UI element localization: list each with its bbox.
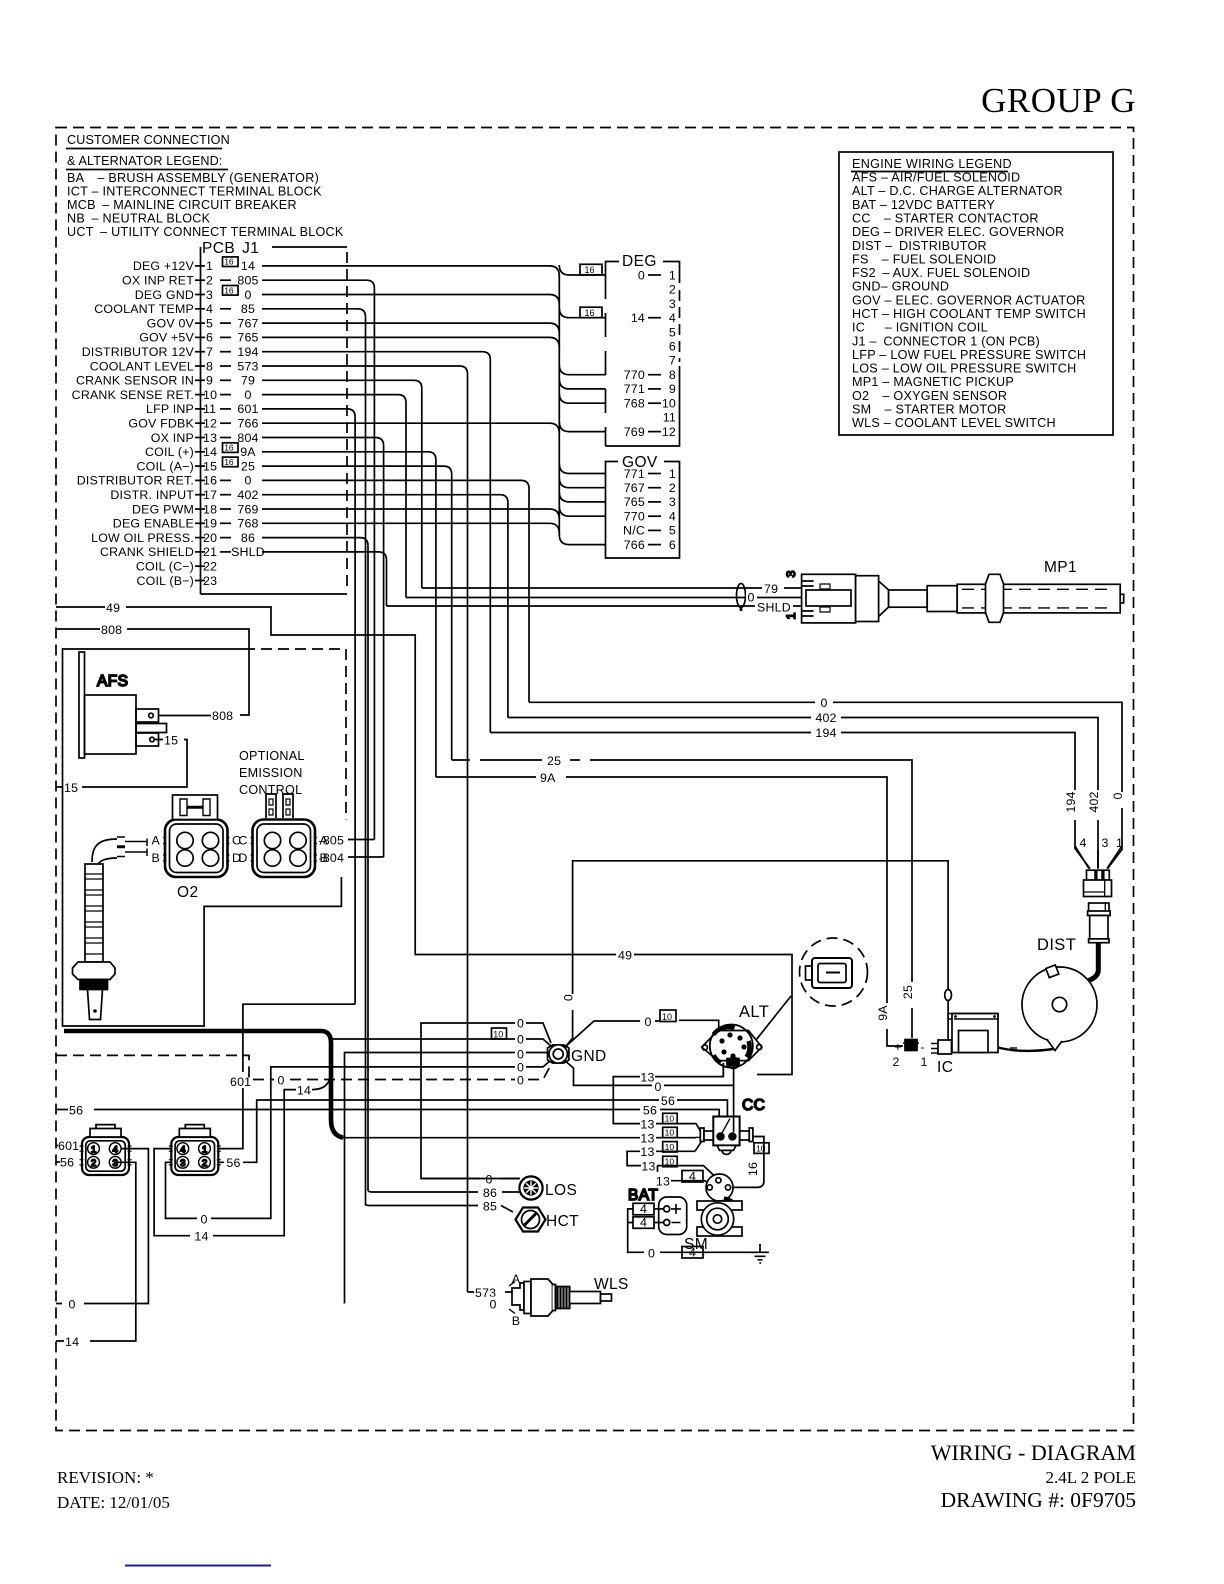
svg-text:402: 402 xyxy=(815,711,836,725)
harness connector 2 xyxy=(169,1125,221,1175)
boxed label 4 xyxy=(633,1202,654,1216)
svg-text:OX INP RET: OX INP RET xyxy=(122,274,194,288)
svg-text:REVISION: *: REVISION: * xyxy=(57,1468,154,1487)
svg-text:4: 4 xyxy=(640,1216,647,1230)
distributor connector lower xyxy=(1088,903,1111,943)
svg-text:ENGINE WIRING LEGEND: ENGINE WIRING LEGEND xyxy=(852,157,1012,171)
wire 85 vertical xyxy=(365,317,367,1206)
svg-text:LOS: LOS xyxy=(545,1182,577,1199)
wire label 0 xyxy=(746,589,757,603)
svg-text:WIRING - DIAGRAM: WIRING - DIAGRAM xyxy=(931,1440,1136,1465)
svg-text:1: 1 xyxy=(920,1055,927,1069)
svg-text:18: 18 xyxy=(203,502,217,516)
svg-text:DEG PWM: DEG PWM xyxy=(132,502,194,516)
wire J1 pin 10 drop xyxy=(262,395,406,403)
svg-text:14: 14 xyxy=(631,311,645,325)
svg-text:22: 22 xyxy=(203,560,217,574)
svg-text:10: 10 xyxy=(665,1114,675,1124)
svg-text:14: 14 xyxy=(194,1230,208,1244)
svg-text:194: 194 xyxy=(815,726,836,740)
svg-text:GROUP G: GROUP G xyxy=(981,81,1136,120)
wire 25 vertical xyxy=(451,474,453,760)
wire J1 pin 9 drop xyxy=(262,380,422,388)
wire 804 stub xyxy=(348,856,384,858)
boxed label 16 DEG pin1 xyxy=(580,264,602,275)
svg-text:ALT: ALT xyxy=(739,1003,769,1021)
svg-text:4: 4 xyxy=(669,510,676,524)
svg-text:13: 13 xyxy=(640,1145,654,1159)
svg-text:4: 4 xyxy=(640,1202,647,1216)
svg-text:DIST: DIST xyxy=(1037,936,1076,954)
svg-text:DIST – DISTRIBUTOR: DIST – DISTRIBUTOR xyxy=(852,239,987,253)
svg-text:0: 0 xyxy=(517,1033,524,1047)
svg-text:UCT – UTILITY CONNECT TERMINAL: UCT – UTILITY CONNECT TERMINAL BLOCK xyxy=(67,225,344,239)
wire 0 conn2 loop to GND xyxy=(166,1060,552,1218)
svg-text:14: 14 xyxy=(297,1084,311,1098)
svg-text:3: 3 xyxy=(113,1158,118,1169)
svg-text:1: 1 xyxy=(784,612,798,619)
rotated wire label 402 xyxy=(1092,790,1105,820)
wire J1 pin 20 drop xyxy=(262,538,368,546)
wire J1 pin 6 to DEG/GOV bus xyxy=(262,337,559,347)
svg-text:808: 808 xyxy=(101,623,122,637)
svg-text:DEG +12V: DEG +12V xyxy=(133,259,195,273)
svg-text:J1 – CONNECTOR 1 (ON PCB): J1 – CONNECTOR 1 (ON PCB) xyxy=(852,334,1040,348)
svg-text:13: 13 xyxy=(203,431,217,445)
svg-text:86: 86 xyxy=(241,531,255,545)
boxed label 10 xyxy=(754,1143,769,1154)
svg-text:25: 25 xyxy=(901,985,915,999)
O2 connector tab xyxy=(173,795,218,820)
wire 402 vertical xyxy=(507,503,509,718)
ground node GND xyxy=(548,1045,569,1063)
svg-text:765: 765 xyxy=(624,495,645,509)
AFS O2 enclosure box xyxy=(63,649,342,1026)
emission connector tab xyxy=(266,794,293,818)
svg-text:GOV FDBK: GOV FDBK xyxy=(128,417,194,431)
wire 808 xyxy=(56,629,249,715)
svg-text:DEG – DRIVER ELEC. GOVERNOR: DEG – DRIVER ELEC. GOVERNOR xyxy=(852,225,1065,239)
wire label 0 xyxy=(652,1079,664,1093)
battery BAT xyxy=(628,1187,687,1235)
svg-text:LFP INP: LFP INP xyxy=(146,402,194,416)
svg-text:GND– GROUND: GND– GROUND xyxy=(852,280,949,294)
svg-text:10: 10 xyxy=(665,1142,675,1152)
svg-text:6: 6 xyxy=(669,340,676,354)
svg-text:767: 767 xyxy=(237,316,258,330)
svg-text:0: 0 xyxy=(489,1298,496,1312)
svg-text:B: B xyxy=(512,1314,520,1328)
optional emission dashed box xyxy=(244,649,346,820)
svg-text:13: 13 xyxy=(640,1071,654,1085)
svg-text:4: 4 xyxy=(1079,836,1086,850)
svg-text:14: 14 xyxy=(241,259,255,273)
svg-text:-804: -804 xyxy=(319,851,345,865)
svg-text:56: 56 xyxy=(661,1094,675,1108)
svg-text:3: 3 xyxy=(669,495,676,509)
svg-text:0: 0 xyxy=(517,1017,524,1031)
wire 56 branch to conn2 xyxy=(214,1110,257,1163)
svg-text:O2 – OXYGEN SENSOR: O2 – OXYGEN SENSOR xyxy=(852,389,1007,403)
wire label 601 xyxy=(229,1072,256,1088)
svg-text:49: 49 xyxy=(618,949,632,963)
svg-text:769: 769 xyxy=(624,425,645,439)
svg-text:21: 21 xyxy=(203,545,217,559)
svg-text:AFS – AIR/FUEL SOLENOID: AFS – AIR/FUEL SOLENOID xyxy=(852,171,1020,185)
wire 13 to stud slant xyxy=(695,1142,702,1152)
svg-text:16: 16 xyxy=(224,285,234,295)
svg-text:194: 194 xyxy=(1064,791,1078,812)
svg-text:2.4L 2 POLE: 2.4L 2 POLE xyxy=(1045,1468,1136,1487)
svg-text:A: A xyxy=(152,834,161,848)
engine wiring legend box xyxy=(839,152,1113,435)
svg-text:5: 5 xyxy=(669,325,676,339)
DIST connector slants xyxy=(1075,846,1122,869)
wire 0 bundle to GND xyxy=(333,1039,552,1047)
svg-text:IC – IGNITION COIL: IC – IGNITION COIL xyxy=(852,321,988,335)
svg-text:4: 4 xyxy=(689,1169,696,1183)
svg-text:805: 805 xyxy=(237,274,258,288)
svg-text:2: 2 xyxy=(669,481,676,495)
boxed label 16 xyxy=(223,286,239,296)
wire 0 to LOS xyxy=(421,1178,519,1180)
svg-text:B: B xyxy=(152,851,160,865)
svg-text:LOW OIL PRESS.: LOW OIL PRESS. xyxy=(91,531,194,545)
svg-text:0: 0 xyxy=(562,994,576,1001)
wire J1 pin 17 drop xyxy=(262,495,508,503)
svg-text:0: 0 xyxy=(244,388,251,402)
connector GOV xyxy=(606,454,680,558)
wire 601 vertical xyxy=(354,417,356,1004)
svg-text:10: 10 xyxy=(203,388,217,402)
svg-text:O2: O2 xyxy=(177,884,198,901)
svg-text:DEG GND: DEG GND xyxy=(135,288,194,302)
AFS air fuel solenoid xyxy=(79,652,167,758)
wire J1 pin 16 drop xyxy=(262,480,529,488)
wire label 0 loop xyxy=(197,1210,211,1226)
wire label SHLD xyxy=(755,599,793,613)
wire label 0 dashed gnd xyxy=(515,1072,526,1087)
svg-text:2: 2 xyxy=(91,1158,96,1169)
wire 0 dashed customer ground xyxy=(56,1055,552,1079)
wire label 0 xyxy=(515,1059,526,1074)
outer dashed border xyxy=(56,128,1134,1431)
svg-text:79: 79 xyxy=(764,582,778,596)
svg-text:25: 25 xyxy=(241,459,255,473)
wire 56 branch upper xyxy=(257,1100,728,1133)
wire J1 pin 5 to DEG/GOV bus xyxy=(262,323,559,333)
alternator callout circle xyxy=(800,938,868,1006)
wire 402 to DIST xyxy=(508,718,1098,869)
svg-text:11: 11 xyxy=(663,411,676,425)
wire J1 pin 15 drop xyxy=(262,466,452,474)
svg-text:0: 0 xyxy=(200,1213,207,1227)
emission connector xyxy=(251,820,318,878)
svg-text:13: 13 xyxy=(640,1132,654,1146)
svg-text:9A: 9A xyxy=(876,1005,890,1021)
svg-text:9A: 9A xyxy=(540,771,556,785)
svg-text:SHLD: SHLD xyxy=(757,601,791,615)
alternator ALT xyxy=(702,1025,762,1069)
svg-text:+: + xyxy=(894,1040,901,1054)
boxed label 16 xyxy=(223,257,239,267)
splice ellipse on IC wire xyxy=(945,990,952,1001)
svg-text:766: 766 xyxy=(624,538,645,552)
svg-text:GOV +5V: GOV +5V xyxy=(139,331,194,345)
wire 13 bracket xyxy=(627,1151,716,1177)
svg-text:6: 6 xyxy=(669,538,676,552)
svg-text:15: 15 xyxy=(164,734,178,748)
wire 0 to DIST xyxy=(529,702,1122,868)
svg-text:767: 767 xyxy=(624,481,645,495)
svg-text:16: 16 xyxy=(746,1162,760,1176)
svg-text:SM – STARTER MOTOR: SM – STARTER MOTOR xyxy=(852,403,1007,417)
svg-text:1: 1 xyxy=(669,268,676,282)
svg-text:23: 23 xyxy=(203,574,217,588)
wire 25 xyxy=(452,760,912,1038)
svg-text:DRAWING #: 0F9705: DRAWING #: 0F9705 xyxy=(941,1488,1136,1512)
svg-text:HCT – HIGH COOLANT TEMP SWITCH: HCT – HIGH COOLANT TEMP SWITCH xyxy=(852,307,1086,321)
starter contactor CC xyxy=(696,1097,766,1154)
svg-text:765: 765 xyxy=(237,331,258,345)
svg-text:DEG ENABLE: DEG ENABLE xyxy=(113,517,194,531)
svg-text:COIL (B−): COIL (B−) xyxy=(137,574,194,588)
svg-text:WLS – COOLANT LEVEL SWITCH: WLS – COOLANT LEVEL SWITCH xyxy=(852,416,1056,430)
shield ellipse xyxy=(737,584,746,612)
wire J1 pin 3 to DEG/GOV bus xyxy=(262,295,559,305)
svg-text:8: 8 xyxy=(206,359,213,373)
svg-text:56: 56 xyxy=(643,1104,657,1118)
wire 79 vertical xyxy=(421,388,423,588)
svg-text:5: 5 xyxy=(206,316,213,330)
rotated label 9A xyxy=(880,1003,894,1029)
O2 connector xyxy=(163,820,230,878)
wire label 0 xyxy=(515,1015,526,1030)
starter motor SM xyxy=(697,1201,742,1236)
wire SHLD vertical xyxy=(386,560,388,606)
svg-text:FS – FUEL SOLENOID: FS – FUEL SOLENOID xyxy=(852,252,996,266)
svg-text:ALT – D.C. CHARGE ALTERNATOR: ALT – D.C. CHARGE ALTERNATOR xyxy=(852,184,1063,198)
svg-text:7: 7 xyxy=(206,345,213,359)
svg-text:SM: SM xyxy=(684,1236,708,1253)
svg-text:DATE: 12/01/05: DATE: 12/01/05 xyxy=(57,1493,170,1512)
svg-text:4: 4 xyxy=(669,311,676,325)
svg-text:16: 16 xyxy=(585,265,595,275)
wire J1 pin 11 drop xyxy=(262,409,355,417)
wire 0 DIST vertical xyxy=(528,488,530,702)
boxed label 10 xyxy=(492,1028,507,1039)
wire 0 GND up to IC xyxy=(566,861,948,1046)
svg-text:COIL (+): COIL (+) xyxy=(145,445,194,459)
wire J1 pin 19 to DEG/GOV bus xyxy=(262,523,559,533)
wire J1 pin 2 drop xyxy=(262,280,374,288)
svg-text:DISTRIBUTOR 12V: DISTRIBUTOR 12V xyxy=(82,345,195,359)
svg-text:AFS: AFS xyxy=(97,673,128,690)
harness connector 1 xyxy=(80,1125,132,1175)
svg-text:14: 14 xyxy=(203,445,217,459)
svg-text:1: 1 xyxy=(202,1145,207,1156)
svg-text:HCT: HCT xyxy=(546,1213,579,1230)
svg-text:13: 13 xyxy=(641,1160,655,1174)
svg-text:N/C: N/C xyxy=(623,524,645,538)
svg-text:CC – STARTER CONTACTOR: CC – STARTER CONTACTOR xyxy=(852,212,1039,226)
svg-text:0: 0 xyxy=(277,1074,284,1088)
svg-text:10: 10 xyxy=(493,1029,503,1039)
svg-text:4: 4 xyxy=(206,302,213,316)
wire 13 ALT terminal xyxy=(722,1063,724,1077)
svg-text:768: 768 xyxy=(624,397,645,411)
svg-text:0: 0 xyxy=(1111,792,1125,799)
boxed label 4 xyxy=(682,1245,703,1259)
low oil pressure switch LOS xyxy=(519,1176,542,1199)
O2 sensor xyxy=(73,837,148,1020)
wire 0 GND to ALT xyxy=(564,1020,719,1048)
wire label 0 WLS xyxy=(486,1297,499,1311)
svg-text:0: 0 xyxy=(517,1074,524,1088)
svg-text:85: 85 xyxy=(483,1200,497,1214)
thick harness bundle xyxy=(64,1031,343,1138)
wire J1 pin 21 drop xyxy=(262,552,387,560)
rotated label 25 xyxy=(905,982,919,1008)
boxed label 16 xyxy=(223,457,239,467)
svg-text:0: 0 xyxy=(68,1298,75,1312)
svg-text:0: 0 xyxy=(485,1173,492,1187)
svg-text:573: 573 xyxy=(237,359,258,373)
svg-text:10: 10 xyxy=(662,1012,672,1022)
wire 86 vertical xyxy=(367,546,369,1190)
wire 0 WLS to GND xyxy=(345,1053,553,1304)
wire label 13 xyxy=(655,1172,671,1187)
boxed label 16 DEG pin4 xyxy=(580,307,602,318)
svg-text:2: 2 xyxy=(202,1158,207,1169)
wire label 0 vertical xyxy=(566,994,579,1010)
svg-text:4: 4 xyxy=(180,1145,186,1156)
svg-text:2: 2 xyxy=(892,1055,899,1069)
wire 49 to ALT xyxy=(612,955,792,1075)
svg-text:19: 19 xyxy=(203,517,217,531)
svg-text:3: 3 xyxy=(180,1158,185,1169)
wire 805 stub xyxy=(348,839,374,841)
svg-text:56: 56 xyxy=(226,1156,240,1170)
wire 0 ALT terminal down xyxy=(733,1066,735,1132)
boxed label 10 xyxy=(660,1010,676,1022)
wire label 402 xyxy=(811,709,841,725)
svg-text:MCB – MAINLINE CIRCUIT BREAKER: MCB – MAINLINE CIRCUIT BREAKER xyxy=(67,198,297,212)
ground symbol xyxy=(751,1244,769,1263)
svg-text:770: 770 xyxy=(624,510,645,524)
svg-text:402: 402 xyxy=(1087,791,1101,812)
callout line xyxy=(756,996,791,1040)
svg-text:0: 0 xyxy=(638,268,645,282)
svg-text:6: 6 xyxy=(206,331,213,345)
svg-text:COOLANT LEVEL: COOLANT LEVEL xyxy=(90,359,194,373)
svg-text:1: 1 xyxy=(206,259,213,273)
svg-text:0: 0 xyxy=(244,288,251,302)
svg-text:SHLD: SHLD xyxy=(231,545,265,559)
svg-text:A: A xyxy=(512,1272,521,1286)
boxed label 16 xyxy=(223,443,239,453)
svg-text:GOV – ELEC. GOVERNOR ACTUATOR: GOV – ELEC. GOVERNOR ACTUATOR xyxy=(852,293,1086,307)
boxed label 4 xyxy=(682,1169,703,1183)
rotated wire label 0 xyxy=(1116,792,1129,808)
svg-text:0: 0 xyxy=(644,1015,651,1029)
wire label 0 xyxy=(515,1046,526,1061)
wire 13 solenoid stub xyxy=(658,1166,710,1184)
rotated wire label 194 xyxy=(1069,790,1082,820)
svg-text:COOLANT TEMP: COOLANT TEMP xyxy=(94,302,194,316)
svg-text:NB – NEUTRAL BLOCK: NB – NEUTRAL BLOCK xyxy=(67,212,211,226)
wire battery minus xyxy=(628,1222,664,1224)
svg-text:BA – BRUSH ASSEMBLY (GENERATO: BA – BRUSH ASSEMBLY (GENERATOR) xyxy=(67,171,319,185)
wire J1 pin 4 drop xyxy=(262,309,366,317)
svg-text:CONTROL: CONTROL xyxy=(239,783,302,797)
svg-text:25: 25 xyxy=(547,754,561,768)
wire 194 vertical xyxy=(489,360,491,733)
svg-text:771: 771 xyxy=(624,467,645,481)
svg-text:& ALTERNATOR LEGEND:: & ALTERNATOR LEGEND: xyxy=(67,154,223,168)
svg-text:2: 2 xyxy=(206,274,213,288)
svg-text:12: 12 xyxy=(203,417,217,431)
alternator plug xyxy=(806,958,853,988)
starter solenoid xyxy=(706,1174,734,1208)
svg-text:3: 3 xyxy=(206,288,213,302)
wire 601 route xyxy=(218,1004,355,1148)
distributor DIST xyxy=(998,965,1097,1051)
svg-text:15: 15 xyxy=(64,781,78,795)
wire label 194 xyxy=(811,724,841,740)
svg-text:16: 16 xyxy=(224,457,234,467)
svg-text:7: 7 xyxy=(669,354,676,368)
wire 0 to MP1 xyxy=(406,597,802,599)
svg-text:-805: -805 xyxy=(319,834,345,848)
svg-text:16: 16 xyxy=(585,308,595,318)
wire 0 LOS to GND xyxy=(421,1023,551,1179)
wire 0 MP1 vertical xyxy=(405,403,407,598)
svg-text:WLS: WLS xyxy=(594,1276,629,1293)
svg-text:9: 9 xyxy=(669,382,676,396)
wire bus to DEG GOV xyxy=(558,274,560,536)
svg-text:EMISSION: EMISSION xyxy=(239,766,303,780)
svg-text:49: 49 xyxy=(106,601,120,615)
svg-text:IC: IC xyxy=(937,1059,953,1076)
svg-text:OPTIONAL: OPTIONAL xyxy=(239,749,305,763)
svg-text:ICT – INTERCONNECT TERMINAL BL: ICT – INTERCONNECT TERMINAL BLOCK xyxy=(67,185,322,199)
ignition coil IC xyxy=(931,1014,998,1055)
svg-text:3: 3 xyxy=(784,570,798,577)
wire 573 vertical xyxy=(467,374,469,1292)
svg-text:BAT – 12VDC BATTERY: BAT – 12VDC BATTERY xyxy=(852,198,995,212)
svg-text:0: 0 xyxy=(820,696,827,710)
wire 194 to DIST xyxy=(490,733,1089,869)
svg-text:804: 804 xyxy=(237,431,258,445)
svg-text:-: - xyxy=(920,1040,924,1054)
svg-text:MP1 – MAGNETIC PICKUP: MP1 – MAGNETIC PICKUP xyxy=(852,375,1014,389)
svg-text:56: 56 xyxy=(69,1104,83,1118)
svg-text:601: 601 xyxy=(230,1075,251,1089)
svg-text:15: 15 xyxy=(203,459,217,473)
svg-text:COIL (C−): COIL (C−) xyxy=(136,560,194,574)
svg-text:LFP – LOW FUEL PRESSURE SWITCH: LFP – LOW FUEL PRESSURE SWITCH xyxy=(852,348,1086,362)
wire 16 from CC to solenoid xyxy=(732,1137,764,1188)
wire 573 to WLS xyxy=(468,1291,513,1293)
distributor connector upper xyxy=(1084,870,1112,896)
svg-text:16: 16 xyxy=(224,257,234,267)
wire AFS 808 stub xyxy=(159,715,212,717)
svg-text:MP1: MP1 xyxy=(1044,559,1077,576)
coolant level switch WLS xyxy=(509,1279,612,1316)
wire J1 pin 13 drop xyxy=(262,438,384,446)
wire J1 pin 14 drop xyxy=(262,452,436,460)
